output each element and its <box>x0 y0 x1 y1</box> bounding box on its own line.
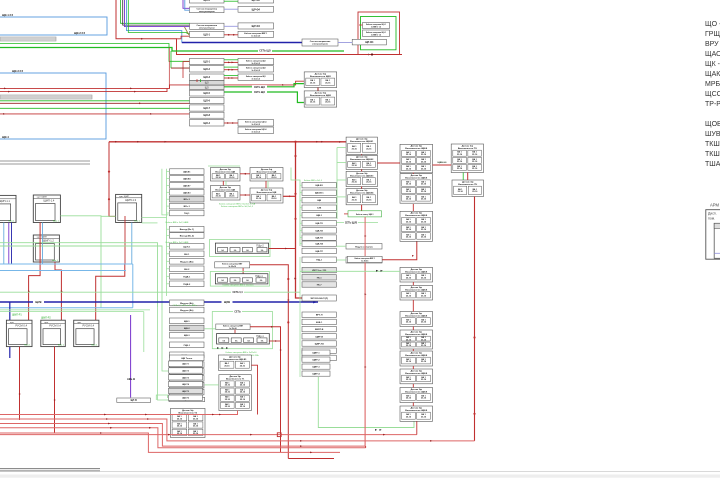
box kabel bottom 1 <box>238 120 274 127</box>
red line left lower <box>0 113 190 115</box>
svg-text:РУСМ 0,4: РУСМ 0,4 <box>15 324 27 328</box>
red link Gm2-Gm4 vertical <box>265 181 267 188</box>
svg-text:ПЩр-2: ПЩр-2 <box>256 244 264 247</box>
svg-text:25-16: 25-16 <box>216 195 222 197</box>
datchik group P1-9 <box>400 369 433 384</box>
svg-text:25-16: 25-16 <box>458 191 464 193</box>
datchik group P1-8 <box>400 351 433 366</box>
svg-text:25-16: 25-16 <box>271 198 277 200</box>
svg-text:ЩВ-В1: ЩВ-В1 <box>183 172 191 174</box>
svg-text:25-16: 25-16 <box>421 361 427 363</box>
svg-text:ЩАО - щит авар. освещения: ЩАО - щит авар. освещения <box>705 51 720 58</box>
box SCHT-V <box>117 398 151 402</box>
dark red link D1-D2 <box>317 88 319 91</box>
box kabel-0 <box>238 0 274 3</box>
svg-text:Модуль (Вх): Модуль (Вх) <box>180 310 194 312</box>
box C2 АУВ-1 y319 <box>302 319 336 324</box>
red link ЩО-3 <box>224 77 238 79</box>
svg-text:ЩВ-П2: ЩВ-П2 <box>315 230 323 232</box>
svg-text:ВИРЛ-В: ВИРЛ-В <box>315 329 324 331</box>
svg-text:ЩР-Ф4: ЩР-Ф4 <box>252 8 261 11</box>
svg-text:электроэнергии: электроэнергии <box>199 27 216 29</box>
svg-text:ЩВ-В1: ЩВ-В1 <box>315 185 323 187</box>
svg-text:ЩО: ЩО <box>205 82 209 85</box>
box C1 ЩВ-3 y332 <box>170 332 205 338</box>
wire green feed 1 <box>121 0 190 23</box>
green feed C2 lower <box>299 257 301 377</box>
box C1 ЩВ НП y376 <box>170 376 205 382</box>
box SCHO-1 row4 <box>190 31 225 37</box>
navy bus to meter box <box>182 42 302 44</box>
datchik group P1-2 <box>400 174 433 204</box>
box C1 ЩВ Тепло y362 <box>170 362 205 368</box>
green feed line C1 outer <box>162 169 169 215</box>
svg-text:25-16: 25-16 <box>229 195 235 197</box>
box ЩО-1 <box>190 58 225 64</box>
svg-text:25-16: 25-16 <box>421 191 427 193</box>
svg-text:Кабель ВВГнг 3х1,5 АВВ: Кабель ВВГнг 3х1,5 АВВ <box>166 241 189 244</box>
dispatcher ARM box (bottom right, clipped) <box>706 203 720 260</box>
red path cabinet2 to RUSM1 <box>29 223 40 321</box>
wire black feed <box>123 0 190 25</box>
red bus from left edge to datchik D1 <box>0 81 304 88</box>
box C2 ПК-7 y282 <box>302 282 336 287</box>
box C2 ЩВР-3 y364 <box>302 364 330 369</box>
svg-text:Выключатель ЩВ-В: Выключатель ЩВ-В <box>405 355 427 357</box>
svg-text:ЩВ-В4: ЩВ-В4 <box>183 178 191 181</box>
blue line y307.7 <box>0 307 133 309</box>
svg-text:Выключатель ЩВ-В: Выключатель ЩВ-В <box>405 148 427 150</box>
red tick enclosure <box>359 24 363 26</box>
svg-text:электроэнергии: электроэнергии <box>312 44 329 46</box>
wire blue feed to navy bus <box>127 0 182 43</box>
red exit RUSM-1 down <box>19 347 21 420</box>
svg-text:25-16: 25-16 <box>193 418 199 420</box>
gray double bus bar left-mid <box>0 160 90 162</box>
svg-text:25-16: 25-16 <box>325 102 331 104</box>
svg-text:ЩВР-1: ЩВР-1 <box>312 353 320 355</box>
box C1 ВН Плавн y352 <box>170 352 205 358</box>
box C1 ГЩ-1 y210 <box>170 210 205 216</box>
green horizontal y246 <box>0 246 162 310</box>
navy branch down <box>9 302 11 358</box>
kabel box right of C2 at 257 <box>346 257 382 263</box>
green verticals right mid <box>158 308 170 400</box>
red link trunk branch y196.3 <box>283 195 295 197</box>
green link ЩО-2 <box>224 66 238 68</box>
red bundle L2 <box>0 419 475 441</box>
green branch to SCHO-2 <box>171 67 190 69</box>
box kabel right of ЩО-1 <box>238 58 274 64</box>
svg-text:Вых 1: Вых 1 <box>9 220 16 222</box>
red link P2 groups vertical <box>467 173 469 181</box>
red vertical left of SCHO rows <box>182 62 184 79</box>
box C2 ПЩ-1 y257 <box>302 257 336 262</box>
green link to kabel box 243 <box>336 245 346 247</box>
svg-text:ЩО-7: ЩО-7 <box>204 107 211 110</box>
violet link row3 <box>224 25 238 27</box>
svg-text:Выключатель ЩВ-В1: Выключатель ЩВ-В1 <box>350 141 374 143</box>
svg-text:25-16: 25-16 <box>421 416 427 418</box>
svg-text:3х 2,5х1,5: 3х 2,5х1,5 <box>252 78 261 80</box>
green link ЩО-3 <box>224 74 238 76</box>
svg-text:ЩО-4: ЩО-4 <box>204 122 211 125</box>
svg-text:25-16: 25-16 <box>472 161 478 163</box>
svg-text:СЕТЬ ЩУВ: СЕТЬ ЩУВ <box>345 222 358 224</box>
svg-text:Кабель смещения ВВГнг 3х25х16: Кабель смещения ВВГнг 3х25х16 <box>226 352 258 354</box>
svg-text:25-16: 25-16 <box>421 237 427 239</box>
lavender link C0-D0 <box>338 42 352 44</box>
green link ЩО-1 <box>224 59 238 61</box>
svg-text:25-16: 25-16 <box>406 339 412 341</box>
svg-text:25-16: 25-16 <box>325 82 331 84</box>
svg-text:3х 2,5х1,5: 3х 2,5х1,5 <box>252 63 261 65</box>
svg-text:Выключатель ЩВ-В1: Выключатель ЩВ-В1 <box>223 359 247 361</box>
datchik group Gtop <box>218 355 251 370</box>
box C2 ИБП Упр. 220 y267 <box>302 267 336 272</box>
svg-text:ЩМП-Р2: ЩМП-Р2 <box>41 316 51 319</box>
red junction dot enclosure <box>371 53 373 55</box>
blue vertical x132.8 <box>132 264 134 308</box>
svg-text:ЗИП 220-340-П (П): ЗИП 220-340-П (П) <box>310 297 328 300</box>
box kabel bottom 2 <box>238 127 274 134</box>
svg-text:25-16: 25-16 <box>366 199 372 201</box>
red riser x169 <box>168 48 170 89</box>
green link cabinet2 to right <box>60 216 101 308</box>
svg-text:ЩР-Ф4: ЩР-Ф4 <box>365 41 374 44</box>
svg-text:25-16: 25-16 <box>472 154 478 156</box>
svg-text:25-16: 25-16 <box>421 339 427 341</box>
svg-text:ЩВ-П1: ЩВ-П1 <box>315 223 323 225</box>
svg-text:ЩМП-1.4: ЩМП-1.4 <box>43 198 54 202</box>
svg-text:25-16: 25-16 <box>366 182 372 184</box>
svg-text:Вых 1: Вых 1 <box>91 344 98 346</box>
svg-text:ПЩ-1: ПЩ-1 <box>316 260 323 262</box>
datchik group Gbot1 <box>171 408 206 437</box>
box C1 ГЦВ-1 y342 <box>170 342 205 348</box>
svg-text:Выключатель ЩВ: Выключатель ЩВ <box>215 189 235 191</box>
green bus to datchik D2 <box>224 92 304 103</box>
svg-text:Выход (Вх-1): Выход (Вх-1) <box>180 229 194 231</box>
svg-text:ВРч-1: ВРч-1 <box>184 199 191 201</box>
box C2 ЩВР-В y334 <box>302 334 336 339</box>
red bottom horizontal from x288 <box>288 458 334 460</box>
purple stub row2 <box>183 0 190 8</box>
svg-text:Выключатель ЩВ-В3: Выключатель ЩВ-В3 <box>350 175 374 177</box>
cyan under cabinet3 <box>131 223 133 265</box>
svg-text:ЩО-0: ЩО-0 <box>204 0 211 2</box>
svg-text:ГЦВ-1: ГЦВ-1 <box>184 345 191 347</box>
svg-text:Дисп.: Дисп. <box>708 212 717 216</box>
svg-text:ВРч-1: ВРч-1 <box>184 206 191 208</box>
mini column boxes right edge x168-180 bottom <box>169 361 203 366</box>
red K4 down to PSCHR1 <box>242 268 244 274</box>
svg-text:МРБ- модуль резервн. блока: МРБ- модуль резервн. блока <box>705 80 720 88</box>
svg-text:25-16: 25-16 <box>271 177 277 179</box>
red stub SCHO-1 left <box>183 61 190 63</box>
black arrow label on green <box>375 429 377 431</box>
svg-text:25-16: 25-16 <box>421 277 427 279</box>
red feed K3 from P1 column <box>382 241 417 259</box>
svg-text:ГРЩ - главный распред. щит: ГРЩ - главный распред. щит <box>705 30 720 38</box>
svg-text:ЩО-1: ЩО-1 <box>204 61 211 64</box>
svg-text:25-16: 25-16 <box>240 385 246 387</box>
red K5 to x280 vertical <box>250 327 280 453</box>
green horizontal y242.7 <box>0 243 158 308</box>
red enclosure rectangle <box>358 12 400 55</box>
datchik group P1-7 <box>400 330 433 349</box>
box SCHO-4 bottom cluster <box>190 120 225 127</box>
svg-text:12В: 12В <box>317 208 321 210</box>
svg-text:25-16: 25-16 <box>406 199 412 201</box>
svg-text:ЩО - щит освещения: ЩО - щит освещения <box>705 21 720 28</box>
svg-text:25-16: 25-16 <box>421 168 427 170</box>
svg-text:Выключатель ЩВ-В: Выключатель ЩВ-В <box>405 410 427 412</box>
svg-text:ЩО-2: ЩО-2 <box>204 68 211 71</box>
svg-text:25-16: 25-16 <box>406 229 412 231</box>
green long line left b <box>0 107 190 109</box>
svg-text:ЩВ-Т5: ЩВ-Т5 <box>182 391 190 393</box>
svg-text:ЩВБ-Н6: ЩВБ-Н6 <box>438 162 448 164</box>
navy bus y302 with arrow <box>0 301 318 303</box>
green link row0 <box>224 0 238 2</box>
red riser P1 bottom group <box>416 421 418 434</box>
svg-text:ТША - шкаф автоматики: ТША - шкаф автоматики <box>705 161 720 168</box>
svg-text:ЩМП-1.2: ЩМП-1.2 <box>43 238 54 242</box>
box A7 <box>190 105 225 111</box>
kabel box K2 <box>348 211 382 217</box>
green feed line C1 <box>166 169 168 296</box>
datchik group D1 <box>304 72 337 88</box>
box kabel right of ЩО-2 <box>238 66 274 72</box>
svg-text:25-16: 25-16 <box>352 182 358 184</box>
svg-text:Кабель смещ. ЩВ-1: Кабель смещ. ЩВ-1 <box>356 213 374 216</box>
gray bar 1 <box>0 37 56 41</box>
box C1 wide bottom <box>169 397 205 401</box>
cyan under cabinet2 <box>42 223 44 265</box>
green enclosure rectangle <box>361 17 397 50</box>
green link P2 groups vertical <box>462 173 464 181</box>
datchik group L1 <box>346 137 377 154</box>
svg-text:ЩхП-1: ЩхП-1 <box>183 246 191 248</box>
svg-text:Вых 1: Вых 1 <box>58 344 65 346</box>
svg-text:Выключатель Т1: Выключатель Т1 <box>226 379 245 381</box>
red links P1 groups <box>412 173 414 174</box>
olive crossing segment <box>185 27 190 35</box>
wire red vertical feed <box>116 0 402 55</box>
cabinet RUSM-2 <box>41 320 66 346</box>
svg-text:Выключатель ЩВ-В: Выключатель ЩВ-В <box>405 391 427 393</box>
blue stub row2 <box>185 0 190 10</box>
datchik group P2-1 <box>451 144 483 173</box>
svg-text:Выключатель ЩВ-В: Выключатель ЩВ-В <box>405 315 427 317</box>
PSCHR-2 group box <box>215 243 268 253</box>
green tick on SCHO tall <box>200 79 202 82</box>
svg-text:25-16: 25-16 <box>229 177 235 179</box>
svg-text:ЩО-5: ЩО-5 <box>204 92 211 95</box>
box SCHO tall gray 2 <box>190 85 225 89</box>
red bundle L5 <box>0 433 340 452</box>
red link bottom cluster <box>224 122 238 124</box>
svg-text:ЩВ: ЩВ <box>317 200 321 202</box>
box C1 Модуль (Вх) y300 <box>170 300 205 306</box>
svg-text:ЩВ-В3: ЩВ-В3 <box>183 192 191 194</box>
svg-text:25-16: 25-16 <box>421 161 427 163</box>
svg-text:ЩР-Ф0: ЩР-Ф0 <box>252 0 261 2</box>
svg-text:25-16: 25-16 <box>421 199 427 201</box>
svg-text:25-16: 25-16 <box>421 154 427 156</box>
svg-text:Выключатель ЩВ-В2: Выключатель ЩВ-В2 <box>350 159 374 161</box>
svg-text:ЩВ-1: ЩВ-1 <box>316 215 323 217</box>
svg-text:3х 25х16: 3х 25х16 <box>361 261 368 263</box>
svg-text:3х ВВГнг 1,5: 3х ВВГнг 1,5 <box>371 34 381 36</box>
svg-text:Вых 1: Вых 1 <box>53 220 60 222</box>
bottom faint band <box>0 475 720 478</box>
svg-text:25-16: 25-16 <box>406 416 412 418</box>
green stub right of cabinet3 b <box>142 222 158 224</box>
PSCHR-1 group box <box>215 274 268 284</box>
svg-text:ЩМП-1.3: ЩМП-1.3 <box>125 198 136 202</box>
box meter row2 <box>190 7 225 13</box>
red link Gm3-Gm4 <box>240 194 250 196</box>
bottom gray double line <box>0 468 100 470</box>
red riser from trunk to cabinet3 <box>109 142 116 217</box>
svg-text:25-16: 25-16 <box>421 345 427 347</box>
box ЩО-3 <box>190 74 225 80</box>
box C1 ЩВ-В1 y169 <box>170 169 205 175</box>
box C2 ВИРЛ-В y326 <box>302 326 336 331</box>
svg-text:ЩВ-В1н: ЩВ-В1н <box>315 193 324 195</box>
box C1 Выход (Вх-2) y233 <box>170 233 205 239</box>
svg-text:25-16: 25-16 <box>406 361 412 363</box>
svg-text:3х 2,5х1,5: 3х 2,5х1,5 <box>252 124 261 126</box>
svg-text:25-16: 25-16 <box>406 379 412 381</box>
svg-text:Выключатель ЩВ-В: Выключатель ЩВ-В <box>405 289 427 291</box>
cabinet RUSM-3 <box>74 320 99 346</box>
svg-text:Выключатель ЩВ-В: Выключатель ЩВ-В <box>405 373 427 375</box>
svg-text:ЩСС - щит слаботочных сетей: ЩСС - щит слаботочных сетей <box>705 90 720 98</box>
box C1 Модуль (Вх) y258 <box>170 259 205 265</box>
box C2 ПК-1 y275 <box>302 275 336 280</box>
box C1 ЩВ Тепло y355 <box>170 355 205 361</box>
svg-text:Модуль (Вх): Модуль (Вх) <box>180 261 194 263</box>
svg-text:ЩЭ-4: ЩЭ-4 <box>2 135 9 139</box>
box meter row3 <box>190 23 225 29</box>
blue link row2 <box>224 8 238 10</box>
svg-text:25-16: 25-16 <box>310 102 316 104</box>
red junction dot x288 <box>287 321 289 323</box>
red bundle L4 <box>0 428 366 448</box>
cabinet RUSM-1 <box>6 320 32 346</box>
svg-text:ЩАК - щит автоматики: ЩАК - щит автоматики <box>705 71 720 78</box>
red link ЩО-1 <box>224 61 238 63</box>
svg-text:ЩВ-П7: ЩВ-П7 <box>315 251 323 253</box>
svg-text:ГЩВ-2: ГЩВ-2 <box>183 284 191 286</box>
svg-text:Выключатель ЩВ-В: Выключатель ЩВ-В <box>405 271 427 273</box>
box C1 ЩВ-В4 y176 <box>170 176 205 182</box>
box C1 ВщВ УП1 y382 <box>170 382 205 388</box>
green verticals below Gm groups <box>225 181 227 186</box>
svg-text:ЩВ-1: ЩВ-1 <box>184 321 191 323</box>
svg-text:ЩТ-В: ЩТ-В <box>131 400 138 402</box>
legend text block <box>705 21 720 168</box>
box C1 ВН-1 y251 <box>170 251 205 257</box>
svg-text:25-16: 25-16 <box>421 184 427 186</box>
box C2 ЩВ-П1 y220 <box>302 221 336 226</box>
green bracket bottom C1 <box>156 395 167 400</box>
datchik group P1-10 <box>400 388 433 403</box>
svg-text:СЕТЬ ЩО: СЕТЬ ЩО <box>259 50 271 53</box>
svg-text:ЩЭ-3 2.5: ЩЭ-3 2.5 <box>12 69 24 73</box>
svg-text:25-16: 25-16 <box>457 154 463 156</box>
svg-text:ЩВР-2: ЩВР-2 <box>312 360 320 362</box>
svg-text:ТКШ - телекоммуникац. шкаф: ТКШ - телекоммуникац. шкаф <box>705 141 720 148</box>
svg-text:25-16: 25-16 <box>240 365 246 367</box>
svg-text:ЩВ-В7: ЩВ-В7 <box>183 185 191 187</box>
box C2 wide ZIP <box>302 295 336 301</box>
red y434.6 continues right to P1 riser <box>296 434 417 436</box>
red K5 down to PSCHR1b <box>234 330 236 334</box>
green stub C1 to Gbot0 <box>205 384 219 386</box>
svg-text:СЕТЬ: СЕТЬ <box>234 312 241 314</box>
svg-text:25-16: 25-16 <box>352 148 358 150</box>
datchik group P1-4 <box>400 267 433 282</box>
svg-text:25-16: 25-16 <box>472 191 478 193</box>
svg-text:25-16: 25-16 <box>240 392 246 394</box>
red vertical x475.5 down <box>474 197 476 441</box>
svg-text:Выключатель ПЧ: Выключатель ПЧ <box>458 184 477 186</box>
box C2 ЩВ-1 y212 <box>302 213 336 218</box>
svg-text:ПЩр-1: ПЩр-1 <box>256 335 264 338</box>
box A8 <box>190 112 225 118</box>
svg-text:25-16: 25-16 <box>472 168 478 170</box>
box C1 ГЩВ-2 y281 <box>170 281 205 287</box>
meter box C0 <box>302 39 338 46</box>
box C2 ЩВР-Об y355 <box>302 355 336 360</box>
red K2 down to K3 <box>364 217 366 256</box>
svg-text:ЩК - щит квартирный: ЩК - щит квартирный <box>705 60 720 68</box>
light green enclosure upper <box>210 240 271 257</box>
datchik group Gm4 <box>250 188 283 203</box>
svg-text:3х 2,5х1,5: 3х 2,5х1,5 <box>252 131 261 133</box>
datchik group P1-5 <box>400 285 433 300</box>
box C2 ЩВР-П4 y341 <box>302 341 336 346</box>
box C2 ЩВР-1 y350 <box>302 350 330 355</box>
svg-text:25-16: 25-16 <box>406 191 412 193</box>
box SCHR-F4 row3 <box>238 23 274 29</box>
svg-text:ЩВ-2: ЩВ-2 <box>184 328 191 330</box>
svg-text:ЩВ Тепло: ЩВ Тепло <box>181 358 193 360</box>
svg-text:ВРУ-П: ВРУ-П <box>316 315 323 317</box>
box C2 ЩВ-П7 y248 <box>302 248 336 253</box>
green vertical right of C2 bottom <box>318 377 414 428</box>
datchik group Gm1 <box>211 168 241 182</box>
svg-text:ВРУ - вводно-распред. устр.: ВРУ - вводно-распред. устр. <box>705 41 720 48</box>
svg-text:25-16: 25-16 <box>352 165 358 167</box>
box C1 ЩВ Т1 y389 <box>170 389 205 395</box>
svg-text:3х 25х16: 3х 25х16 <box>228 266 236 268</box>
svg-text:25-16: 25-16 <box>406 168 412 170</box>
svg-text:25-16: 25-16 <box>406 398 412 400</box>
kabel box K3 <box>347 256 382 262</box>
box C2 12В y205 <box>302 205 336 210</box>
svg-text:ЩВ-Т2: ЩВ-Т2 <box>182 371 190 373</box>
svg-text:25-16: 25-16 <box>225 385 231 387</box>
violet battery line x131 <box>130 315 132 398</box>
box C1 ЧВ2-1 y369 <box>170 369 205 375</box>
svg-text:ЩВ-П4: ЩВ-П4 <box>315 243 323 246</box>
svg-text:25-16: 25-16 <box>421 221 427 223</box>
